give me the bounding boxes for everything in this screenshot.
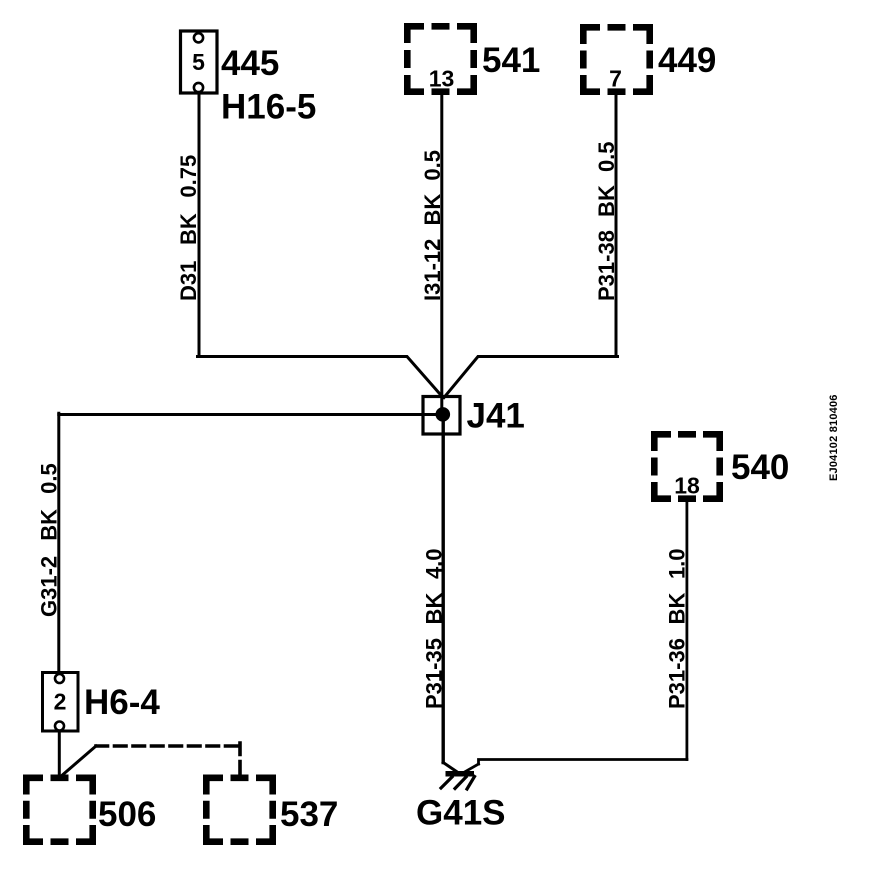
connector 540 (dashed) xyxy=(651,431,723,502)
svg-text:P31-36 BK 1.0: P31-36 BK 1.0 xyxy=(665,548,690,709)
svg-text:7: 7 xyxy=(609,66,622,92)
svg-text:541: 541 xyxy=(482,41,540,80)
connector 445 (H16-5 pin 5) xyxy=(181,31,218,93)
svg-text:5: 5 xyxy=(192,49,205,75)
connector 537 (dashed) xyxy=(203,775,276,846)
junction J41 dot xyxy=(436,407,451,422)
svg-text:H16-5: H16-5 xyxy=(221,88,316,127)
connector 506 (dashed) xyxy=(23,775,96,846)
wire P31-38 horizontal to J41 xyxy=(444,357,618,398)
svg-text:J41: J41 xyxy=(467,397,525,436)
wire H6-4 down to 506 xyxy=(58,731,61,777)
wire I31-12: 541 down to J41 xyxy=(440,93,443,415)
svg-text:G31-2 BK 0.5: G31-2 BK 0.5 xyxy=(37,463,62,617)
connector 541 (dashed) xyxy=(404,23,477,95)
svg-text:P31-35 BK 4.0: P31-35 BK 4.0 xyxy=(421,548,446,709)
svg-text:G41S: G41S xyxy=(416,794,506,833)
svg-text:445: 445 xyxy=(221,44,279,83)
wire P31-36: 540 down xyxy=(686,502,689,760)
wire D31 horizontal to J41 xyxy=(198,357,444,398)
wire into ground left diagonal xyxy=(443,763,458,773)
svg-text:D31 BK 0.75: D31 BK 0.75 xyxy=(176,155,201,301)
svg-text:18: 18 xyxy=(674,473,700,499)
wire into ground right diagonal xyxy=(462,764,479,774)
wire G31-2 horizontal from J41 xyxy=(59,413,442,416)
wire diagonal 506 to dashed link xyxy=(60,746,97,778)
svg-text:537: 537 xyxy=(280,795,338,834)
wire P31-35: J41 down to ground xyxy=(442,415,445,763)
ground symbol G41S xyxy=(441,771,475,789)
dashed link wire down into 537 xyxy=(238,743,242,776)
connector H6-4 pin 2 xyxy=(43,673,79,732)
svg-text:I31-12 BK 0.5: I31-12 BK 0.5 xyxy=(420,150,445,301)
svg-text:13: 13 xyxy=(429,66,455,92)
svg-text:449: 449 xyxy=(658,41,716,80)
svg-text:540: 540 xyxy=(731,448,789,487)
wire G31-2 vertical down to H6-4 xyxy=(57,413,60,672)
junction J41 xyxy=(423,397,460,435)
dashed link wire to 537 horizontal xyxy=(96,744,240,748)
connector 449 (dashed) xyxy=(580,24,653,95)
svg-text:2: 2 xyxy=(54,689,67,715)
svg-text:EJ04102 810406: EJ04102 810406 xyxy=(828,394,840,481)
wire P31-38: 449 down to bend xyxy=(615,93,618,357)
wire P31-36 horizontal to ground xyxy=(479,760,687,765)
svg-text:P31-38 BK 0.5: P31-38 BK 0.5 xyxy=(594,141,619,301)
svg-text:506: 506 xyxy=(98,795,156,834)
wire D31: 445 down to bend xyxy=(198,90,201,357)
svg-text:H6-4: H6-4 xyxy=(84,683,160,722)
